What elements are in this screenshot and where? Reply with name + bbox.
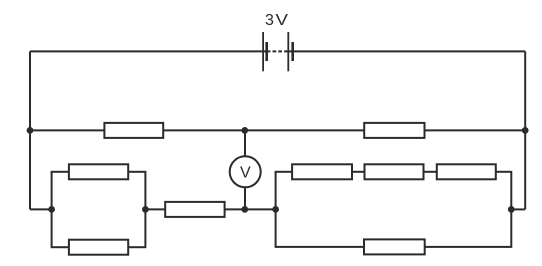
- svg-text:V: V: [275, 10, 288, 28]
- svg-text:3: 3: [265, 12, 274, 29]
- svg-text:V: V: [240, 164, 251, 181]
